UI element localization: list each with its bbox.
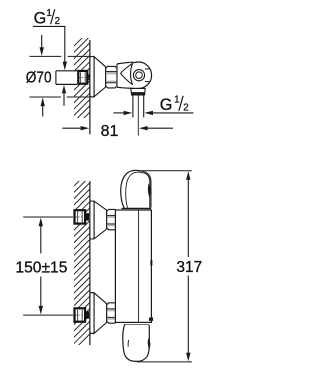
handle chevron notch (lever seen from side) bbox=[121, 64, 133, 85]
handle bottom rim bbox=[122, 207, 152, 209]
svg-text:150±15: 150±15 bbox=[15, 260, 67, 277]
svg-text:81: 81 bbox=[101, 123, 119, 140]
svg-text:G: G bbox=[34, 10, 47, 28]
svg-text:G: G bbox=[160, 96, 173, 114]
G1/2 outlet pointer arrows bbox=[113, 111, 193, 115]
Ø70 dimension arrow (top, outside pointing down) bbox=[40, 35, 44, 56]
lower escutcheon back disc bbox=[90, 293, 94, 334]
handle grip mark (dark wedge) bbox=[148, 183, 151, 197]
svg-text:317: 317 bbox=[176, 259, 202, 276]
svg-text:2: 2 bbox=[183, 102, 188, 113]
Ø70 dimension arrow (bottom, outside pointing up) bbox=[41, 98, 45, 117]
hub ring bbox=[133, 70, 144, 81]
thermostat handle on top bbox=[121, 170, 151, 208]
label G 1/2 (outlet) bbox=[160, 94, 189, 114]
lower wall socket bbox=[75, 308, 90, 321]
wall hatching (bottom drawing) bbox=[60, 160, 100, 364]
dimension 317 bbox=[137, 171, 202, 362]
upper escutcheon cone bbox=[94, 201, 107, 239]
outlet collar under body bbox=[131, 88, 145, 95]
svg-text:2: 2 bbox=[55, 16, 60, 27]
svg-text:1: 1 bbox=[46, 8, 51, 19]
svg-text:1: 1 bbox=[174, 94, 179, 105]
outlet pipe down bbox=[133, 95, 144, 117]
label G 1/2 (top, supply thread) bbox=[34, 8, 60, 28]
dimension 150±15 bbox=[15, 217, 73, 315]
lower union nut bbox=[107, 303, 117, 323]
knob inner mark bbox=[127, 340, 129, 347]
arrow up pointing at supply pipe bottom bbox=[62, 85, 66, 106]
wall face line (also 81-dim extension below) bbox=[89, 40, 91, 134]
supply pipe stub behind wall bbox=[56, 71, 77, 85]
outlet pipe centerline extension bbox=[137, 96, 139, 136]
outlet stub (dark, bottom right of body) bbox=[149, 318, 153, 321]
wall face line (bottom drawing) bbox=[89, 181, 91, 345]
Ø70 bottom extension line bbox=[30, 96, 62, 98]
wall hatching (top drawing) bbox=[60, 25, 95, 142]
svg-text:Ø70: Ø70 bbox=[26, 69, 52, 86]
leader shelf of G 1/2 top bbox=[33, 25, 66, 27]
wall socket (threaded fitting in wall, top view) bbox=[78, 71, 90, 84]
Ø70 top extension line bbox=[30, 55, 62, 57]
union nut (side view, top drawing) bbox=[106, 66, 117, 88]
upper union nut bbox=[107, 209, 117, 229]
escutcheon cone bbox=[94, 57, 106, 97]
body chord lines right of hub bbox=[145, 68, 150, 70]
dimension 81 bbox=[62, 123, 173, 140]
valve body (round head, side view) bbox=[116, 62, 151, 88]
lower escutcheon cone bbox=[94, 293, 107, 334]
upper escutcheon back disc bbox=[90, 201, 94, 239]
escutcheon back disc bbox=[90, 57, 94, 97]
upper wall socket bbox=[75, 210, 90, 223]
leader drop arrow pointing at supply pipe top bbox=[63, 26, 67, 70]
mixer body (vertical, side view) bbox=[115, 210, 151, 322]
bottom knob (volume control) bbox=[123, 325, 151, 362]
knob grip mark (dark wedge) bbox=[148, 338, 151, 349]
